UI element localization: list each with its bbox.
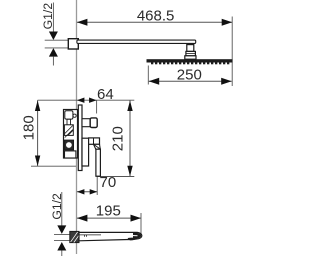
lever grip bar: [96, 149, 101, 176]
valve box hatch lines: [65, 126, 73, 138]
extension line valve front: [96, 100, 98, 113]
arm connector segment 1: [187, 45, 194, 52]
svg-text:210: 210: [109, 126, 126, 151]
valve box stem: [67, 119, 71, 125]
dim 180 top arrow: [35, 101, 40, 112]
dim 180 bottom extension line: [31, 165, 76, 167]
spout inner line: [79, 234, 101, 236]
lever arm divider: [93, 138, 95, 144]
valve box bottom block: [65, 151, 76, 158]
chain line top (64/180/210 datum): [38, 99, 135, 101]
svg-text:180: 180: [20, 115, 37, 140]
dim 64 right arrow: [89, 98, 97, 103]
spout aerator: [128, 238, 138, 241]
arm connector segment 2 midline: [186, 53, 196, 55]
dim 250 line: [149, 80, 232, 82]
dim 210 top arrow: [127, 101, 132, 112]
dim 180 line: [37, 100, 39, 166]
spout tip dark fill: [133, 233, 141, 239]
dim 195 left arrow: [77, 215, 88, 222]
chain line bottom (210/70): [97, 176, 135, 178]
shower head nozzle teeth: [151, 62, 229, 64]
G1/2 top down arrow: [49, 32, 58, 41]
dim 180 bottom arrow: [35, 156, 40, 167]
G1/2 top fitting lower edge line: [45, 47, 68, 49]
dim 195 right arrow: [131, 215, 142, 222]
G1/2 bottom lower leader line: [61, 251, 63, 256]
valve box small circle: [73, 114, 76, 117]
G1/2 top fitting upper edge line: [45, 39, 68, 41]
valve body: [82, 138, 89, 166]
lever arm: [89, 138, 100, 144]
arm connector segment 2: [186, 51, 196, 55]
G1/2 top leader line: [52, 3, 54, 34]
dim 70 right arrow: [90, 189, 98, 194]
G1/2 bottom fitting lower line: [54, 239, 70, 241]
right extension line: [231, 17, 233, 87]
diverter knob neck: [82, 119, 90, 127]
lever neck lines: [94, 145, 100, 149]
extension line lever tip: [96, 177, 98, 196]
arm connector base: [185, 56, 196, 59]
diverter knob cap: [90, 118, 97, 128]
dim 195 right extension line: [140, 213, 142, 237]
svg-text:250: 250: [177, 67, 202, 84]
valve box port hole: [66, 142, 72, 148]
svg-text:G1/2: G1/2: [41, 3, 55, 30]
shower head plate: [147, 60, 232, 62]
svg-text:64: 64: [97, 86, 114, 103]
G1/2 bottom fitting upper line: [54, 234, 70, 236]
shower arm: [77, 40, 196, 43]
spout tip white sliver: [129, 234, 138, 236]
G1/2 bottom leader line: [61, 192, 63, 226]
lever neck: [94, 144, 101, 149]
dim 250 right arrow: [221, 78, 232, 85]
dim 70 line: [77, 191, 97, 193]
left extension line for 250: [147, 66, 149, 85]
dim 210 line: [129, 100, 131, 176]
spout detail ticks: [85, 235, 87, 237]
dim 250 left arrow: [149, 78, 160, 85]
dim 64 left arrow: [77, 98, 85, 103]
in-wall valve box: [64, 110, 78, 159]
wall line: [76, 0, 78, 254]
valve box cartridge top: [65, 111, 73, 119]
dim 70 left arrow: [77, 189, 85, 194]
valve box hatched block: [64, 125, 73, 136]
spout wall flange: [70, 231, 79, 242]
G1/2 top lower leader line: [52, 57, 54, 66]
dim 468.5 line: [77, 21, 232, 23]
dim 195 line: [77, 217, 141, 219]
wall fitting square: [68, 39, 78, 49]
svg-text:468.5: 468.5: [137, 7, 175, 24]
dim 210 bottom arrow: [127, 166, 132, 177]
escutcheon plate: [78, 105, 82, 171]
svg-text:195: 195: [96, 203, 121, 220]
spout body: [79, 232, 142, 240]
valve box port block: [64, 140, 73, 150]
G1/2 top up arrow: [49, 48, 58, 57]
G1/2 bottom up arrow: [57, 242, 66, 251]
G1/2 bottom down arrow: [57, 225, 66, 234]
dim 468.5 left arrow: [77, 19, 88, 26]
svg-text:70: 70: [100, 174, 117, 191]
dim 468.5 right arrow: [222, 19, 233, 26]
spout flange hatch: [71, 232, 79, 243]
